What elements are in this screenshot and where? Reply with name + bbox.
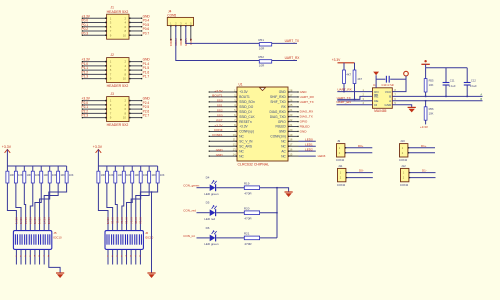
svg-text:15: 15 [289,152,292,156]
svg-text:C11: C11 [450,79,455,83]
svg-text:+3.3V: +3.3V [93,145,103,149]
wire pin 9 J3 [82,117,107,119]
svg-text:NC: NC [281,144,286,148]
U1 right pin 16 [288,150,299,152]
pin dots [105,104,107,106]
wire J4 pin2 to R52 [176,26,259,61]
svg-text:P2.7: P2.7 [143,114,150,118]
connector J9 [337,144,345,157]
wire pin 6 J3 [129,108,142,110]
svg-text:12: 12 [233,143,236,147]
wire to R54 [354,63,356,70]
svg-text:U1: U1 [239,83,243,87]
svg-text:SSID_CLK: SSID_CLK [239,115,255,119]
wire LED3 [299,155,316,157]
svg-text:GND: GND [300,129,308,133]
svg-text:SSID_SOn: SSID_SOn [239,100,255,104]
svg-text:4K7: 4K7 [346,72,351,76]
svg-text:10K: 10K [109,173,114,177]
svg-text:KEY9: KEY9 [106,217,110,224]
svg-text:SC_ARS: SC_ARS [239,144,252,148]
svg-text:4K7: 4K7 [357,77,362,81]
wire pin 5 J4 [190,26,192,40]
wire pin 7 J1 [82,30,107,32]
svg-text:IDC10: IDC10 [145,236,154,240]
wire pin 1 J3 [82,100,107,102]
svg-text:SHIF_RXD: SHIF_RXD [270,95,286,99]
svg-text:MAX485: MAX485 [374,109,386,113]
wire pin 8 J2 [129,73,142,75]
wire pin 7 J3 [82,112,107,114]
svg-text:KEY8: KEY8 [47,217,51,224]
svg-text:+3.3V: +3.3V [239,90,248,94]
svg-text:UART_RX: UART_RX [285,56,301,60]
wire pin 3 J3 [82,104,107,106]
svg-text:SS3: SS3 [217,113,223,117]
wire LED bus [276,188,278,238]
pin dots [105,74,107,76]
pin dots [105,26,107,28]
svg-text:R19: R19 [244,181,250,185]
pin dot [170,25,171,26]
ground [285,191,293,193]
LED D5 [210,205,217,216]
ground [56,272,64,274]
resistor R55 [424,79,427,92]
svg-text:A: A [480,93,482,97]
svg-text:J3: J3 [111,92,115,96]
svg-text:18: 18 [289,138,292,142]
junction [343,91,345,93]
RE overline [374,94,378,97]
svg-text:CONF(zm): CONF(zm) [270,135,285,139]
wire resistor 2 to connector [16,183,21,265]
wire resistor 5 to connector [35,183,41,265]
wire +3.3V rail [7,165,66,167]
svg-text:21: 21 [289,123,292,127]
svg-text:FBLED: FBLED [300,124,311,128]
pin dots [105,34,107,36]
svg-text:26: 26 [289,98,292,102]
svg-text:UART_TX: UART_TX [300,100,314,104]
svg-text:VCC: VCC [385,90,392,94]
svg-text:SS0: SS0 [217,99,223,103]
svg-text:10K: 10K [10,173,15,177]
U1 left pin 10 [209,135,237,137]
connector J6 [105,231,143,250]
wire pin 10 J1 [129,34,142,36]
wire pin 5 J2 [82,69,107,71]
svg-text:J9: J9 [337,139,340,143]
svg-text:CONF: CONF [214,128,223,132]
svg-text:11: 11 [233,138,236,142]
wire J4 pin4 to R51 [186,26,259,44]
svg-text:KY13: KY13 [125,217,129,224]
svg-text:CON_int: CON_int [183,234,195,238]
svg-text:+3.3V: +3.3V [214,89,223,93]
svg-text:0.1uF: 0.1uF [470,84,477,88]
wire J10 pin2 [408,152,435,154]
wire +5V rail stem [425,64,427,68]
wire pin 5 J1 [82,26,107,28]
wire to U2 DE [337,100,361,102]
svg-text:25: 25 [289,103,292,107]
U1 left pin 9 [209,130,237,132]
U1 right pin 21 [288,126,299,128]
pin dots [105,69,107,71]
svg-text:P0.3: P0.3 [82,31,89,35]
svg-text:R52: R52 [258,55,264,59]
wire to ground [151,192,153,273]
svg-text:LED3: LED3 [318,154,326,158]
svg-text:HEADER 5X2: HEADER 5X2 [107,84,129,88]
svg-text:GND: GND [385,103,393,107]
svg-text:10: 10 [123,33,127,37]
svg-text:0.1uF: 0.1uF [449,84,456,88]
wire J12 pin2 [409,177,436,179]
U1 right pin 27 [288,96,299,98]
wire resistor to bus [260,237,277,239]
resistor array J6 R7 [148,166,151,183]
wire +3.3V rail [98,165,157,167]
svg-text:SSID_DO: SSID_DO [239,105,254,109]
wire R54 down [354,84,356,100]
ground [408,106,416,108]
wire resistor 7 to connector [44,183,58,265]
wire LED to resistor [216,212,244,214]
IC U2 MAX485 [373,88,393,109]
wire power stem [97,149,99,166]
U1 left pin 8 [209,126,237,128]
svg-text:R55: R55 [429,79,434,83]
svg-text:CON_green: CON_green [183,184,199,188]
svg-text:CON2: CON2 [400,183,409,187]
wire rail to C11 [445,68,447,82]
svg-text:HEADER 5X2: HEADER 5X2 [107,10,129,14]
svg-text:LED green: LED green [204,242,219,246]
pin dots [105,61,107,63]
svg-text:CONF(up): CONF(up) [239,130,254,134]
svg-text:J2: J2 [111,53,115,57]
svg-text:P0.7: P0.7 [143,31,150,35]
svg-text:D0+: D0+ [358,144,364,148]
connector J10 [400,144,408,157]
svg-text:UART_RX: UART_RX [337,88,351,92]
wire rail to C12 [466,68,468,82]
svg-text:10R: 10R [259,46,265,50]
U1 left pin 1 [209,91,237,93]
resistor array J6 R1 [97,166,100,183]
U1 left pin 5 [209,111,237,113]
U1 left pin 7 [209,121,237,123]
ground [147,272,155,274]
svg-text:GPIO: GPIO [300,119,308,123]
U1 left pin 6 [209,116,237,118]
svg-text:GND: GND [300,90,308,94]
resistor array J5 R6 [48,166,51,183]
svg-text:10K: 10K [429,83,434,87]
U1 left pin 4 [209,106,237,108]
resistor array J6 R8 [156,166,159,183]
svg-text:UART_TX: UART_TX [285,39,300,43]
U1 right pin 23 [288,116,299,118]
wire to LED [197,237,210,239]
svg-text:P1.7: P1.7 [143,75,150,79]
wire resistor 8 to connector [140,183,157,265]
pin dot [190,25,191,26]
wire resistor 4 to connector [122,183,124,265]
U1 left pin 14 [209,155,237,157]
svg-text:BOUT1: BOUT1 [212,94,223,98]
pin dots [105,100,107,102]
svg-text:+3.3V: +3.3V [214,123,223,127]
resistor R52 [259,60,271,63]
wire pin 1 J4 [170,26,172,40]
pin dots [105,78,107,80]
svg-text:HEADER 5X2: HEADER 5X2 [107,123,129,127]
wire resistor 2 to connector [107,183,113,265]
wire pin 2 J1 [129,17,142,19]
wire UART_TX to U2 RE [337,96,372,99]
svg-text:GND: GND [216,148,224,152]
wire pin 9 J1 [82,34,107,36]
wire LED to resistor [216,187,244,189]
resistor R56 [424,107,427,120]
wire A line to R56 [425,101,427,107]
wire pin 4 J3 [129,104,142,106]
wire pin 6 J2 [129,69,142,71]
svg-text:DI: DI [374,103,377,107]
svg-text:R21: R21 [244,232,250,236]
svg-text:LED0: LED0 [305,138,313,142]
svg-text:19: 19 [289,133,292,137]
wire J9 pin1 [345,147,372,149]
pin dots [105,117,107,119]
wire J12 pin1 [409,172,436,174]
wire R55 to B line [425,92,427,96]
wire power stem [6,149,8,166]
svg-text:10K: 10K [69,173,74,177]
svg-text:GND: GND [279,130,287,134]
resistor array J6 R5 [131,166,134,183]
svg-text:J12: J12 [401,164,406,168]
wire LED to resistor [216,237,244,239]
svg-text:22: 22 [289,118,292,122]
svg-text:470R: 470R [244,192,252,196]
U1 right pin 15 [288,155,299,157]
wire resistor 3 to connector [24,183,25,265]
svg-text:RESETn: RESETn [239,120,252,124]
wire resistor 4 to connector [30,183,32,265]
wire U2 A line [392,100,482,102]
wire R51 to UART_TX [272,42,297,44]
wire resistor to bus [260,212,277,214]
U1 right pin 26 [288,101,299,103]
svg-text:GPIO: GPIO [278,120,286,124]
wire C12 to B line [466,85,468,96]
U1 right pin 19 [288,135,299,137]
wire pin 3 J1 [82,21,107,23]
U1 left pin 13 [209,150,237,152]
svg-text:10: 10 [233,133,236,137]
svg-text:SSID_DI: SSID_DI [239,110,252,114]
svg-text:KEY5: KEY5 [33,217,37,224]
svg-text:10K: 10K [118,173,123,177]
svg-text:J10: J10 [400,139,405,143]
svg-text:R20: R20 [244,206,250,210]
wire pin 1 J2 [82,61,107,63]
svg-text:LED green: LED green [204,192,219,196]
svg-text:D1+: D1+ [421,144,427,148]
svg-text:B: B [480,97,482,101]
svg-text:10K: 10K [143,173,148,177]
resistor array J5 R2 [14,166,17,183]
svg-text:CLRC632 CHIPNAL: CLRC632 CHIPNAL [238,162,270,166]
svg-text:SS2: SS2 [217,109,223,113]
pin dot [185,25,186,26]
pin dots [105,30,107,32]
wire resistor 6 to connector [40,183,50,265]
wire J11 pin1 [346,172,373,174]
svg-text:10K: 10K [27,173,32,177]
svg-text:D6: D6 [206,226,210,230]
wire pin 1 J1 [82,17,107,19]
pin dots [105,17,107,19]
wire bus to ground [277,188,289,192]
svg-text:DIAG_TX: DIAG_TX [300,115,313,119]
power port +5V circle [404,71,409,76]
wire pin 2 J2 [129,61,142,63]
resistor array J5 R7 [57,166,60,183]
pin dots [105,22,107,24]
svg-text:BOUT1: BOUT1 [239,95,250,99]
svg-text:CONF1: CONF1 [212,133,223,137]
svg-text:10K: 10K [126,173,131,177]
wire resistor 6 to connector [131,183,141,265]
svg-text:SHIF_TXD: SHIF_TXD [270,100,286,104]
U1 right pin 28 [288,91,299,93]
wire UART_EN to U2 DI [337,104,373,106]
svg-text:CON5: CON5 [167,13,176,17]
connector J4 [167,17,193,25]
LED D4 [210,180,217,191]
capacitor C11 [443,83,450,86]
header J2 [107,58,129,83]
resistor array J6 R6 [139,166,142,183]
wire +5V to U2 VCC pin [392,76,406,92]
svg-text:D1-: D1- [422,169,427,173]
LED D6 [210,230,217,241]
svg-text:470R: 470R [244,242,252,246]
svg-text:KEY1: KEY1 [15,217,19,224]
wire pin 3 J2 [82,65,107,67]
svg-text:KY11: KY11 [115,217,119,224]
svg-text:D4: D4 [206,176,210,180]
svg-text:J6: J6 [145,231,149,235]
IC U1 CLRC632 [237,87,288,161]
U1 right pin 25 [288,106,299,108]
svg-text:GND: GND [279,90,287,94]
svg-text:20: 20 [289,128,292,132]
svg-text:TXD0: TXD0 [179,39,183,47]
wire pin 10 J3 [129,117,142,119]
wire top rail [426,67,468,69]
svg-text:10K: 10K [151,173,156,177]
wire resistor to bus [260,187,277,189]
resistor R20 [244,211,259,215]
svg-text:DIAG_RX: DIAG_RX [300,110,314,114]
pin dot [175,25,176,26]
svg-text:GND1: GND1 [169,39,173,47]
wire pin 4 J2 [129,65,142,67]
U1 left pin 12 [209,145,237,147]
wire resistor 7 to connector [136,183,149,265]
svg-text:LED1: LED1 [305,142,313,146]
junction [354,99,356,101]
svg-text:17: 17 [289,143,292,147]
svg-text:GND: GND [216,153,224,157]
svg-text:10K: 10K [160,173,165,177]
svg-text:D5: D5 [206,201,210,205]
wire R52 to UART_RX [272,60,297,62]
svg-text:LED2: LED2 [305,147,313,151]
svg-text:KEY7: KEY7 [42,217,46,224]
svg-text:10R: 10R [259,64,265,68]
wire pin 6 J1 [129,26,142,28]
svg-text:+3.3V: +3.3V [420,125,428,129]
wire C11 to B line [445,85,447,96]
svg-text:KY16: KY16 [139,217,143,224]
wire resistor 3 to connector [115,183,117,265]
resistor array J5 R3 [23,166,26,183]
svg-text:KEY2: KEY2 [19,217,23,224]
wire LED1 [299,145,316,147]
svg-text:10K: 10K [429,111,434,115]
svg-text:NC: NC [281,140,286,144]
resistor array J5 R5 [40,166,43,183]
svg-text:CON_red: CON_red [183,209,196,213]
svg-text:10: 10 [123,77,127,81]
connector J12 [401,168,409,181]
wire C10 to +5V port [390,78,406,80]
svg-text:RST: RST [216,118,222,122]
capacitor C12 [464,83,471,86]
connector J5 [13,231,51,250]
svg-text:10K: 10K [43,173,48,177]
svg-text:KY15: KY15 [134,217,138,224]
svg-text:10K: 10K [18,173,23,177]
wire LED2 [299,150,316,152]
svg-text:+3.3V: +3.3V [239,125,248,129]
svg-text:10K: 10K [60,173,65,177]
resistor R21 [244,236,259,240]
resistor array J6 R3 [114,166,117,183]
svg-text:UART_EN: UART_EN [336,100,350,104]
pin dot [180,25,181,26]
resistor R51 [259,43,271,46]
svg-text:LED red: LED red [204,217,215,221]
svg-text:J1: J1 [111,6,115,10]
svg-text:NC: NC [281,154,286,158]
wire resistor 1 to connector [98,183,108,265]
svg-text:10K: 10K [134,173,139,177]
wire J10 pin1 [408,147,435,149]
svg-text:P2.3: P2.3 [82,114,89,118]
wire resistor 8 to connector [49,183,67,265]
svg-text:10K: 10K [35,173,40,177]
svg-text:CON2: CON2 [399,158,408,162]
svg-text:DIAG_RXD: DIAG_RXD [270,110,287,114]
